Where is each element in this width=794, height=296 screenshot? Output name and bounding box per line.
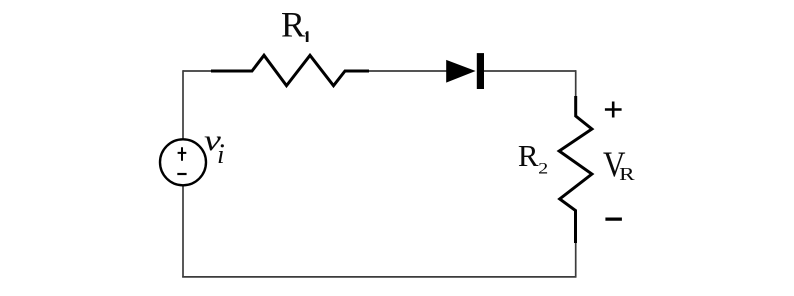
wire right vertical lower (575, 242, 577, 277)
svg-text:R: R (518, 138, 539, 173)
svg-text:R: R (619, 166, 635, 185)
wire left vertical upper (182, 70, 184, 140)
wire bottom horizontal (182, 276, 576, 278)
resistor R1 (211, 55, 369, 85)
wire left vertical lower (182, 186, 184, 278)
diode D1 triangle (446, 60, 475, 83)
voltage source vi circle (160, 139, 206, 185)
svg-text:ı: ı (217, 139, 224, 169)
source minus sign (177, 173, 186, 175)
svg-text:2: 2 (538, 160, 548, 177)
wire between R1 and diode (368, 70, 447, 72)
source plus sign (178, 147, 187, 161)
wire diode to top-right corner (483, 70, 576, 72)
wire right vertical upper (575, 70, 577, 97)
svg-text:R: R (281, 4, 305, 44)
resistor R2 (559, 96, 592, 243)
minus sign at VR bottom (605, 218, 622, 221)
diode D1 bar (477, 53, 484, 89)
plus sign at VR top (605, 102, 622, 118)
wire top-left horizontal (183, 70, 212, 72)
